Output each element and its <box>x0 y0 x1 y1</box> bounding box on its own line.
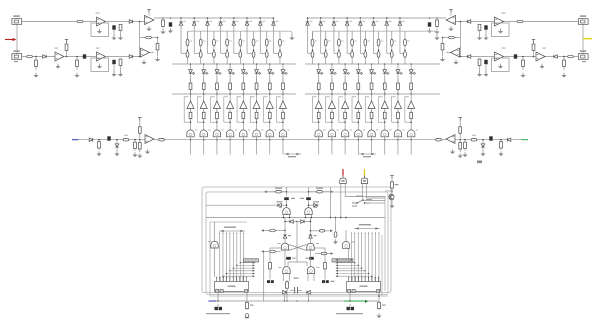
op-amp UR1 <box>495 17 504 26</box>
bundle tap R1 <box>337 259 351 261</box>
wire driver output <box>434 139 446 141</box>
V+ <box>65 40 68 43</box>
transistor Q6 <box>253 130 260 137</box>
label DZ1 <box>310 21 313 22</box>
capacitor CL3 <box>83 54 86 58</box>
V+ <box>459 118 462 121</box>
zener diode DZ4 <box>219 22 223 25</box>
label DZ8 <box>402 21 405 22</box>
feedback loop comparator 5 <box>237 97 243 122</box>
feedback loop comparator 7 <box>392 97 398 122</box>
IC IC2 <box>347 282 381 292</box>
resistor R35 <box>378 301 381 310</box>
resistor RR11 <box>471 138 477 141</box>
ground <box>448 26 453 31</box>
resistor Re2 <box>202 110 205 121</box>
wire zener col 7 <box>259 18 261 53</box>
bundle wire R6 <box>368 233 370 282</box>
wire <box>391 188 393 195</box>
label Ra1 <box>315 41 317 42</box>
comparator A4 <box>355 101 362 109</box>
transistor Q1 <box>315 130 322 137</box>
diode DR2 <box>554 55 557 59</box>
resistor RR8 <box>522 57 525 71</box>
ground <box>498 64 503 69</box>
resistor Re3 <box>216 110 219 121</box>
label Ra4 <box>354 41 356 42</box>
wire mode line left <box>250 204 287 206</box>
diode DR1 <box>467 20 470 24</box>
wire <box>308 200 310 207</box>
wire zener col 2 <box>193 18 195 53</box>
label Q6 <box>389 130 391 131</box>
label UL1 <box>96 13 100 14</box>
resistor Rd4 <box>357 79 360 94</box>
resistor Rd2 <box>202 79 205 94</box>
wire divider col 4 <box>351 31 353 64</box>
ground <box>453 60 458 65</box>
resistor RR6 <box>563 57 566 71</box>
wire LED col 1 <box>318 64 320 140</box>
resistor Rb4 <box>351 52 354 58</box>
comparator A7 <box>266 101 273 109</box>
wire divider col 5 <box>239 31 241 64</box>
zener diode DZ1 <box>306 22 310 25</box>
feedback loop comparator 1 <box>312 97 318 122</box>
wire jog 8 <box>273 52 280 54</box>
feedback loop UL1 <box>91 23 109 37</box>
resistor Rb3 <box>213 52 216 58</box>
feedback loop comparator 2 <box>197 97 203 122</box>
zener diode DZ8 <box>272 22 276 25</box>
label To Slave 1 <box>219 230 245 232</box>
bundle wire L5 <box>232 233 234 282</box>
wire jog 2 <box>321 52 326 54</box>
label UR3 <box>543 48 547 49</box>
label Q6 <box>261 130 263 131</box>
resistor R36 <box>334 232 337 238</box>
label Ra1 <box>190 41 192 42</box>
op-amp UR6 <box>446 135 455 144</box>
diode D11 <box>314 203 317 207</box>
resistor Rb8 <box>404 52 407 58</box>
LED LD5 <box>370 70 376 75</box>
label Q5 <box>376 130 378 131</box>
transistor Q3 <box>341 130 348 137</box>
transistor T18 <box>305 208 312 215</box>
resistor Rb7 <box>265 52 268 58</box>
wire <box>485 65 487 73</box>
connector mark <box>14 61 18 62</box>
label DZ5 <box>236 21 239 22</box>
connector pads (right) <box>322 280 325 283</box>
ground <box>434 29 439 34</box>
label Q8 <box>287 130 289 131</box>
bundle wire L2 <box>222 233 224 282</box>
flip-flop cross coupling <box>289 245 307 251</box>
resistor RL8 <box>76 57 79 71</box>
gray left rail 3 <box>209 222 211 296</box>
label DZ5 <box>363 21 366 22</box>
diode DL4 <box>89 138 92 142</box>
capacitor CR5 <box>489 136 492 140</box>
transistor T17 <box>283 208 290 215</box>
lamp LA2 yellow lead <box>364 169 366 176</box>
wire <box>310 250 312 268</box>
wire output stub 6 <box>256 140 258 155</box>
zener diode DZ2 <box>319 22 323 25</box>
wire LED col 7 <box>269 64 271 140</box>
wire IC1 to clock line <box>217 293 219 302</box>
wire divider col 6 <box>378 31 380 64</box>
wire jog 6 <box>247 52 254 54</box>
bundle wire R1 <box>350 233 352 282</box>
bundle wire R7 <box>371 233 373 282</box>
ground <box>483 72 488 77</box>
wire zener col 4 <box>346 18 348 53</box>
capacitor CL1 <box>112 25 115 29</box>
connector JL2 <box>12 54 22 60</box>
zener diode DZ1 <box>179 22 183 25</box>
bundle wire L8 <box>243 233 245 282</box>
resistor R33 <box>286 280 289 290</box>
op-amp UL5 <box>141 48 150 57</box>
wire <box>479 31 481 36</box>
resistor Re8 <box>282 110 285 121</box>
wire <box>450 11 452 16</box>
connector Master Clock In <box>215 307 218 310</box>
op-amp UL3 <box>55 52 64 61</box>
comparator A1 <box>315 101 322 109</box>
label DZ4 <box>349 21 352 22</box>
resistor RL10 <box>98 140 101 150</box>
control block inner right rail 2 <box>381 235 383 296</box>
wire jog 4 <box>221 52 228 54</box>
wire zener col 1 <box>180 18 182 53</box>
resistor Rd7 <box>268 79 271 94</box>
ground <box>168 28 173 33</box>
zener diode DZ3 <box>332 22 336 25</box>
resistor RL14 <box>138 140 141 152</box>
resistor Rd2 <box>331 79 334 94</box>
comparator A8 <box>279 101 286 109</box>
resistor Re6 <box>255 110 258 121</box>
label Ra7 <box>269 41 271 42</box>
wire <box>287 262 289 266</box>
resistor Rd3 <box>216 79 219 94</box>
resistor Rb4 <box>226 52 229 58</box>
bundle tap R7 <box>337 275 372 277</box>
LED LD8 <box>409 70 415 75</box>
bundle tap L4 <box>233 267 253 269</box>
bundle wire L1 <box>219 233 221 282</box>
control block inner box <box>206 192 388 295</box>
wire <box>504 56 537 58</box>
wire <box>286 187 288 196</box>
control block inner right rail <box>384 196 386 291</box>
capacitor CR1 <box>484 25 487 29</box>
wire <box>284 250 286 268</box>
diode DL1 <box>129 20 132 24</box>
earth ground <box>245 314 249 318</box>
wire driver input L <box>79 139 146 141</box>
wire output stub 5 <box>242 140 244 155</box>
wire output stub 2 <box>331 140 333 155</box>
feedback loop comparator 4 <box>224 97 230 122</box>
bundle tap L3 <box>237 264 253 266</box>
resistor RR14 <box>459 140 462 152</box>
zener DZ18 <box>309 235 313 238</box>
wire divider col 6 <box>253 31 255 64</box>
wire <box>446 52 451 54</box>
zener diode DZ7 <box>385 22 389 25</box>
transistor Q7 <box>394 130 401 137</box>
transistor Q4 <box>355 130 362 137</box>
resistor R25 <box>317 190 323 193</box>
resistor RR9 <box>478 59 481 67</box>
ground <box>539 64 544 69</box>
wire output stub 7 <box>269 140 271 155</box>
resistor Ra1 <box>311 39 314 46</box>
wire zener col 5 <box>233 18 235 53</box>
resistor R30 <box>391 181 394 189</box>
ground <box>132 152 137 157</box>
wire routing b <box>335 218 337 232</box>
resistor Re5 <box>370 110 373 121</box>
tap arrow right mid <box>330 230 333 233</box>
resistor Ra4 <box>226 39 229 46</box>
diode DR4 <box>507 138 510 142</box>
wire IC2 right pin <box>378 293 380 304</box>
resistor RL9 <box>119 59 122 67</box>
resistor Ra7 <box>265 39 268 46</box>
capacitor CL2 <box>169 22 172 26</box>
input net label (blue) left driver <box>72 139 79 141</box>
wire zener col 5 <box>359 18 361 53</box>
capacitor CL5 <box>107 136 110 140</box>
comparator A1 <box>187 101 194 109</box>
power symbol (isolated) <box>477 161 482 164</box>
transistor T19 <box>281 243 288 250</box>
feedback loop comparator 1 <box>184 97 190 122</box>
wire divider col 2 <box>200 31 202 64</box>
resistor Rd7 <box>397 79 400 94</box>
zener diode DZ2 <box>192 22 196 25</box>
LED LD4 <box>228 70 234 75</box>
ground R36 <box>333 239 338 244</box>
wire jog 1 <box>181 52 188 54</box>
bundle tap L1 <box>244 259 253 261</box>
resistor RL3 <box>156 38 159 57</box>
ground <box>462 152 467 157</box>
resistor Ra6 <box>377 39 380 46</box>
wire divider col 1 <box>312 31 314 64</box>
wire <box>460 38 462 57</box>
wire LED col 6 <box>256 64 258 140</box>
wire divider col 8 <box>404 31 406 64</box>
resistor R32 <box>324 261 327 271</box>
ground <box>55 64 60 69</box>
ground <box>33 73 38 78</box>
wire IC2 pin to osc <box>349 293 351 302</box>
feedback loop UR1 <box>492 23 510 37</box>
wire LED col 5 <box>371 64 373 140</box>
wire LED col 1 <box>190 64 192 140</box>
label Ra8 <box>407 41 409 42</box>
ground <box>97 64 102 69</box>
label Ra2 <box>203 41 205 42</box>
diode DL3 <box>129 55 132 59</box>
ladder bus (LED anode rail) <box>305 63 440 65</box>
bundle tap R5 <box>337 270 365 272</box>
resistor RL5 <box>27 55 33 58</box>
wire +V bus right segment <box>308 18 447 22</box>
IC IC1 <box>215 282 249 292</box>
label Ra6 <box>256 41 258 42</box>
tap arrow left (top) <box>264 190 267 193</box>
resistor RR12 <box>464 140 467 151</box>
wire +V bus left segment <box>154 18 274 22</box>
wire <box>485 30 487 36</box>
wire to clock line <box>263 252 265 302</box>
resistor Rb1 <box>311 52 314 58</box>
diode D15 <box>307 291 310 295</box>
comparator A8 <box>408 101 415 109</box>
transistor Q6 <box>381 130 388 137</box>
wire JL1-JL2 <box>16 25 18 54</box>
resistor Ra8 <box>404 39 407 46</box>
resistor RL1 <box>77 20 83 23</box>
bundle tap L2 <box>240 262 253 264</box>
feedback resistor UL2 <box>140 37 158 39</box>
transistor Q5 <box>240 130 247 137</box>
wire <box>460 22 462 38</box>
wire zener col 1 <box>307 18 309 53</box>
wire <box>315 247 326 249</box>
op-amp UR4 <box>495 52 504 61</box>
ground <box>440 57 445 62</box>
master clock line <box>213 300 379 302</box>
V+ UL2 <box>147 10 150 13</box>
feedback resistor UR2 <box>443 37 461 39</box>
control block inner bottom rail <box>210 295 388 297</box>
op-amp UL6 <box>145 135 154 144</box>
trimmer P2 (hatched) <box>332 259 353 262</box>
wire <box>214 222 216 243</box>
resistor Ra2 <box>199 39 202 46</box>
resistor R34 <box>246 301 249 310</box>
wire zener col 2 <box>320 18 322 53</box>
wire JR1-JR2 <box>582 25 584 54</box>
connector JL1 <box>12 19 22 25</box>
wire <box>391 200 393 203</box>
ground <box>145 149 150 154</box>
resistor RL4 <box>162 18 165 29</box>
label Q4 <box>363 130 365 131</box>
capacitor C14 <box>309 257 314 260</box>
resistor RR1 <box>517 20 523 23</box>
LED LD3 <box>343 70 349 75</box>
resistor Re4 <box>229 110 232 121</box>
zener diode DZ4 <box>345 22 349 25</box>
label DZ2 <box>323 21 326 22</box>
transistor Q2 <box>200 130 207 137</box>
label DZ6 <box>376 21 379 22</box>
zener diode DZ7 <box>258 22 262 25</box>
label DZ2 <box>197 21 200 22</box>
label Slave 2 measurement <box>359 153 376 155</box>
resistor RR10 <box>500 140 503 150</box>
transistor Q8 <box>407 130 414 137</box>
LED LD8 <box>281 70 287 75</box>
wire <box>139 38 141 57</box>
bundle wire L4 <box>229 233 231 282</box>
comparator A7 <box>394 101 401 109</box>
capacitor CL4 <box>112 60 115 64</box>
label T22 <box>317 267 320 268</box>
resistor Rd8 <box>410 79 413 94</box>
diode DR3 <box>467 55 470 59</box>
wire jog 2 <box>194 52 201 54</box>
op-amp UL4 <box>97 52 106 61</box>
bundle wire R3 <box>357 233 359 282</box>
wire jog 7 <box>387 52 392 54</box>
zener DZ17 <box>283 235 287 238</box>
label Q5 <box>248 130 250 131</box>
resistor Rd4 <box>229 79 232 94</box>
wire to right rail <box>345 196 385 198</box>
ground Q20 <box>389 203 394 208</box>
label Q7 <box>402 130 404 131</box>
label DZ8 <box>276 21 279 22</box>
resistor Ra5 <box>364 39 367 46</box>
wire <box>391 177 393 181</box>
label UL3 <box>55 48 59 49</box>
wire jog 3 <box>334 52 339 54</box>
wire <box>307 274 309 282</box>
resistor RL6 <box>35 57 38 71</box>
resistor R29 <box>321 252 327 255</box>
wire LED col 6 <box>384 64 386 140</box>
wire <box>306 262 308 266</box>
wire to box <box>385 190 392 192</box>
lamp LA2 <box>361 178 367 183</box>
label Ra4 <box>229 41 231 42</box>
wire divider col 1 <box>187 31 189 64</box>
LED LD2 <box>202 70 208 75</box>
op-amp UR5 <box>451 48 460 57</box>
transistor T9 <box>342 241 349 248</box>
wire <box>288 261 307 263</box>
label Oscillator Clock In <box>336 313 363 314</box>
resistor Re4 <box>357 110 360 121</box>
diode D14 <box>283 291 286 295</box>
wire LED col 3 <box>344 64 346 140</box>
wire <box>305 215 307 218</box>
wire lamp LA2 lead b <box>366 184 368 198</box>
wire <box>308 294 310 301</box>
internal +V rail <box>206 217 385 219</box>
capacitor CR3 <box>514 54 517 58</box>
connector pads (left) <box>267 280 270 283</box>
label DZ7 <box>263 21 266 22</box>
resistor Re7 <box>397 110 400 121</box>
resistor Rd6 <box>383 79 386 94</box>
feedback loop comparator 2 <box>326 97 332 122</box>
LED LD6 <box>255 70 261 75</box>
resistor Ra2 <box>324 39 327 46</box>
resistor Rb8 <box>279 52 282 58</box>
